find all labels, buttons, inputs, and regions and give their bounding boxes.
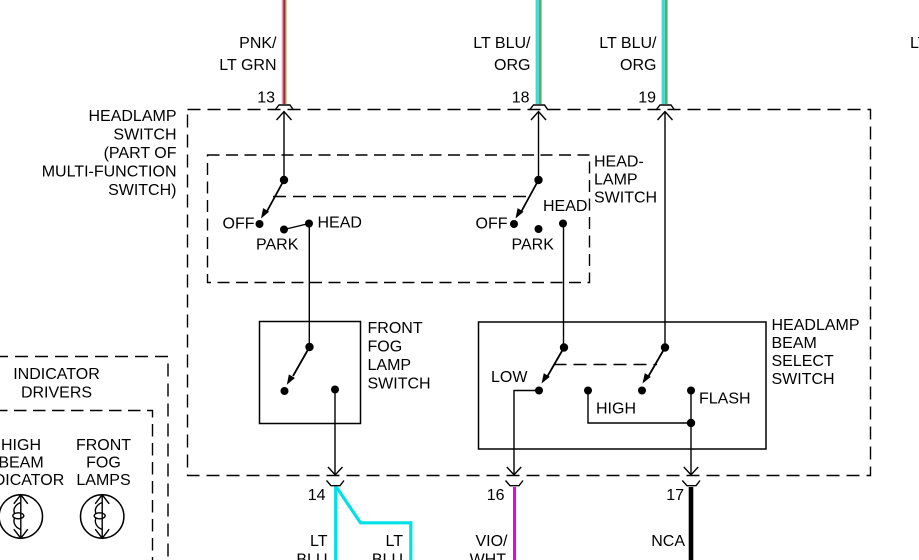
svg-text:LT GRN: LT GRN bbox=[219, 57, 276, 74]
switch S2b beam select right arm (HIGH/FLASH) bbox=[584, 343, 751, 417]
switch arm S2a bbox=[547, 348, 564, 378]
svg-text:LOW: LOW bbox=[491, 369, 528, 386]
svg-text:PNK/: PNK/ bbox=[239, 35, 277, 52]
label: LT BLU/ORG (pin 19) bbox=[599, 35, 657, 74]
mechanical link SW1-SW2 (dashed) bbox=[273, 196, 527, 198]
switch arm SW1 bbox=[266, 180, 284, 213]
label: INDICATOR DRIVERS bbox=[13, 366, 100, 402]
box: HEADLAMP BEAM SELECT SWITCH S2 bbox=[479, 322, 767, 449]
wire: pin 19 down to beam select right pivot bbox=[664, 112, 666, 348]
junction node (HIGH/FLASH common) bbox=[687, 419, 695, 427]
pivot node S1 bbox=[305, 343, 313, 351]
dashed box: indicator drivers inner bbox=[0, 411, 153, 560]
label: LT BLU (right branch) bbox=[372, 533, 403, 560]
svg-text:FOG: FOG bbox=[368, 339, 403, 356]
arrow up pin 19 bbox=[658, 112, 673, 121]
svg-text:HEAD: HEAD bbox=[318, 215, 362, 232]
wire: pin 13 to left pole pivot bbox=[283, 112, 285, 180]
svg-text:14: 14 bbox=[308, 487, 326, 504]
svg-text:NCA: NCA bbox=[651, 533, 685, 550]
wire: fog switch output to pin 14 bbox=[334, 390, 336, 475]
arrow up pin 18 bbox=[531, 112, 546, 121]
contact HIGH (S2b) bbox=[584, 387, 592, 395]
svg-text:LT BLU/: LT BLU/ bbox=[910, 35, 919, 52]
lamp L1 HIGH BEAM INDICATOR bbox=[0, 495, 43, 538]
contact node S1 output bbox=[331, 386, 339, 394]
label: PNK/LT GRN bbox=[219, 35, 277, 74]
contact (S2b moving end) bbox=[638, 387, 646, 395]
svg-text:FLASH: FLASH bbox=[699, 391, 751, 408]
arrow down pin 17 bbox=[684, 467, 698, 475]
contact FLASH (S2b) bbox=[687, 387, 695, 395]
pin 13 bbox=[257, 90, 293, 121]
connector cup pin 14 bbox=[327, 481, 345, 486]
switch arm S2b bbox=[648, 348, 665, 378]
label: LT BLU/ORG (pin 18) bbox=[473, 35, 531, 74]
svg-text:PARK: PARK bbox=[512, 237, 555, 254]
svg-text:INDICATOR: INDICATOR bbox=[13, 366, 100, 383]
svg-text:FRONT: FRONT bbox=[368, 320, 423, 337]
svg-text:FOG: FOG bbox=[86, 455, 121, 472]
svg-text:BLU: BLU bbox=[372, 552, 403, 560]
svg-text:WHT: WHT bbox=[470, 552, 507, 560]
svg-text:LT: LT bbox=[310, 533, 328, 550]
wire: FLASH contact down bbox=[690, 391, 692, 424]
contact OFF (SW2) bbox=[510, 220, 518, 228]
connector hat pin 19 bbox=[656, 105, 675, 110]
label: LT BLU (left branch) bbox=[296, 533, 327, 560]
svg-text:HEAD: HEAD bbox=[543, 198, 587, 215]
wire W5 LT BLU (pin 14, right branch) bbox=[337, 488, 411, 560]
wire: LOW contact to pin 16 bbox=[514, 391, 539, 475]
wire: SW1 HEAD to fog switch pivot bbox=[308, 224, 310, 348]
pivot node SW1 bbox=[280, 176, 288, 184]
label: HEADLAMP BEAM SELECT SWITCH bbox=[772, 317, 860, 388]
pin 18 bbox=[512, 90, 548, 121]
wire W2 LT BLU/ORG (pin 18 feed) bbox=[536, 0, 542, 104]
contact PARK (SW1) bbox=[280, 226, 288, 234]
contact OFF (SW1) bbox=[256, 220, 264, 228]
contact node S1 (moving end) bbox=[281, 387, 289, 395]
dashed box: INDICATOR DRIVERS (outer) bbox=[0, 357, 168, 560]
connector cup pin 16 bbox=[506, 481, 524, 486]
switch S1 fog lamp switch bbox=[281, 343, 340, 395]
svg-text:ORG: ORG bbox=[494, 57, 530, 74]
switch SW2 right pole (OFF/PARK/HEAD) bbox=[476, 176, 588, 254]
svg-text:SWITCH: SWITCH bbox=[594, 190, 657, 207]
svg-text:LAMPS: LAMPS bbox=[76, 472, 130, 489]
arrow down pin 14 bbox=[328, 467, 343, 475]
svg-text:HEADLAMP: HEADLAMP bbox=[88, 108, 176, 125]
wire W6 VIO/WHT (pin 16) bbox=[513, 487, 516, 560]
svg-text:FRONT: FRONT bbox=[76, 437, 131, 454]
svg-text:SWITCH: SWITCH bbox=[772, 371, 835, 388]
arrow up pin 13 bbox=[277, 112, 292, 121]
label: FRONT FOG LAMP SWITCH bbox=[368, 320, 431, 393]
box: FRONT FOG LAMP SWITCH S1 bbox=[260, 322, 361, 424]
contact HEAD (SW1) bbox=[305, 220, 313, 228]
lamp L2 FRONT FOG LAMPS bbox=[81, 495, 124, 538]
svg-text:BEAM: BEAM bbox=[772, 335, 817, 352]
wire: HIGH contact to junction bbox=[588, 391, 691, 424]
svg-text:SELECT: SELECT bbox=[772, 353, 834, 370]
pin 16 bbox=[487, 467, 523, 504]
label: HEAD-LAMP SWITCH bbox=[594, 154, 657, 207]
label: VIO/WHT bbox=[470, 533, 508, 560]
wire: junction to pin 17 bbox=[690, 423, 692, 474]
wire W4 LT BLU (pin 14, left branch) bbox=[334, 487, 337, 560]
contact HEAD (SW2) bbox=[559, 220, 567, 228]
contact LOW (S2a) bbox=[535, 387, 543, 395]
switch S2a beam select left arm (LOW) bbox=[491, 343, 568, 394]
svg-text:BLU: BLU bbox=[296, 552, 327, 560]
svg-text:OFF: OFF bbox=[223, 216, 255, 233]
svg-text:PARK: PARK bbox=[256, 237, 299, 254]
svg-text:17: 17 bbox=[666, 487, 684, 504]
pin 17 bbox=[666, 467, 700, 504]
switch arm S1 bbox=[293, 347, 310, 376]
svg-text:(PART OF: (PART OF bbox=[104, 145, 177, 162]
svg-text:LAMP: LAMP bbox=[594, 172, 638, 189]
connector hat pin 18 bbox=[530, 105, 549, 110]
svg-text:INDICATOR: INDICATOR bbox=[0, 472, 64, 489]
svg-text:OFF: OFF bbox=[476, 216, 508, 233]
svg-text:MULTI-FUNCTION: MULTI-FUNCTION bbox=[42, 164, 177, 181]
big dashed box: headlamp switch assembly bbox=[188, 110, 871, 476]
svg-text:SWITCH: SWITCH bbox=[368, 376, 431, 393]
switch arm SW2 bbox=[521, 180, 539, 213]
pivot node S2b bbox=[661, 343, 669, 351]
label: HEADLAMP SWITCH (PART OF MULTI-FUNCTION SWITCH) bbox=[42, 108, 177, 199]
svg-text:HEADLAMP: HEADLAMP bbox=[772, 317, 860, 334]
pin 19 bbox=[638, 90, 674, 121]
svg-text:BEAM: BEAM bbox=[0, 455, 44, 472]
svg-text:LT BLU/: LT BLU/ bbox=[473, 35, 531, 52]
svg-text:19: 19 bbox=[638, 90, 656, 107]
svg-text:ORG: ORG bbox=[620, 57, 656, 74]
pin 14 bbox=[308, 467, 344, 504]
connector cup pin 17 bbox=[682, 481, 700, 486]
pivot node SW2 bbox=[534, 176, 542, 184]
svg-text:LAMP: LAMP bbox=[368, 357, 412, 374]
svg-text:18: 18 bbox=[512, 90, 530, 107]
wire W3 LT BLU/ORG (pin 19 feed) bbox=[662, 0, 668, 104]
svg-text:VIO/: VIO/ bbox=[475, 533, 508, 550]
switch SW1 left pole (OFF/PARK/HEAD) bbox=[223, 176, 362, 254]
svg-text:HIGH: HIGH bbox=[596, 401, 636, 418]
svg-text:16: 16 bbox=[487, 487, 505, 504]
pivot node S2a bbox=[560, 343, 568, 351]
svg-text:LT: LT bbox=[386, 533, 404, 550]
mechanical link S2a-S2b (dashed) bbox=[554, 364, 658, 366]
arrow down pin 16 bbox=[507, 467, 521, 475]
svg-text:SWITCH: SWITCH bbox=[113, 127, 176, 144]
label: HIGH BEAM INDICATOR bbox=[0, 437, 64, 489]
wire: SW2 HEAD down to beam select left pivot bbox=[563, 224, 565, 348]
label: FRONT FOG LAMPS bbox=[76, 437, 131, 489]
svg-text:DRIVERS: DRIVERS bbox=[21, 385, 92, 402]
inner dashed box: HEAD-LAMP SWITCH bbox=[208, 155, 590, 283]
svg-text:HIGH: HIGH bbox=[1, 437, 41, 454]
svg-text:HEAD-: HEAD- bbox=[594, 154, 644, 171]
contact PARK (SW2) bbox=[535, 225, 543, 233]
svg-text:SWITCH): SWITCH) bbox=[108, 182, 176, 199]
svg-text:LT BLU/: LT BLU/ bbox=[599, 35, 657, 52]
wire W7 NCA (pin 17) bbox=[689, 487, 694, 560]
wire W1 PNK/LT GRN (pin 13 feed) bbox=[282, 0, 287, 104]
wire: PARK to HEAD link (SW1) bbox=[284, 224, 309, 230]
connector hat pin 13 bbox=[275, 105, 294, 110]
svg-text:13: 13 bbox=[257, 90, 275, 107]
wire: pin 18 to right pole pivot bbox=[538, 112, 540, 180]
